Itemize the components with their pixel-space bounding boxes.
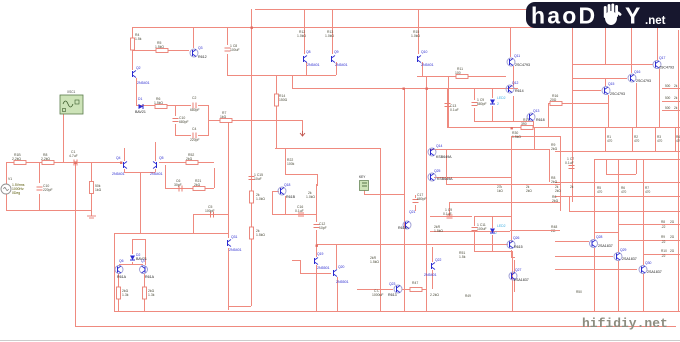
wire fb box loop — [175, 105, 209, 136]
svg-text:Q15: Q15 — [608, 82, 615, 86]
svg-text:R49: R49 — [465, 294, 471, 298]
resistor R17 — [521, 118, 533, 130]
wire Q12b column rows — [430, 150, 560, 232]
wire bottom rail y326 — [75, 326, 676, 328]
wire row y211 — [569, 196, 680, 212]
capacitor C5 fb2 — [205, 205, 215, 218]
wire output ladder stubs to y311 — [381, 148, 513, 311]
resistor R4 — [131, 33, 142, 50]
svg-text:0.1uF: 0.1uF — [295, 209, 304, 213]
svg-text:680pF: 680pF — [190, 108, 200, 112]
svg-text:1kΩ: 1kΩ — [220, 115, 227, 119]
resistor labels right margin low — [661, 220, 675, 258]
transistor Q7 mirror — [140, 259, 155, 279]
resistor R30 label — [512, 131, 521, 139]
svg-text:R614: R614 — [515, 89, 524, 93]
svg-text:2N5401: 2N5401 — [424, 273, 437, 277]
svg-text:2SA1837: 2SA1837 — [647, 270, 662, 274]
resistor R10 — [143, 287, 155, 299]
svg-text:Q10: Q10 — [421, 50, 428, 54]
wire column x132 — [133, 27, 137, 105]
svg-text:2SA1837: 2SA1837 — [622, 257, 637, 261]
svg-text:Q26: Q26 — [513, 236, 520, 240]
transistor Q2 2N5401 — [133, 66, 150, 85]
svg-text:.22: .22 — [661, 225, 666, 229]
capacitor C15 x251 — [249, 173, 264, 181]
capacitor C2 — [190, 96, 200, 112]
svg-text:220pF: 220pF — [43, 188, 53, 192]
resistor R1 — [12, 153, 26, 165]
capacitor C17 — [413, 193, 427, 203]
transistor Q14b KSB649A — [428, 169, 453, 181]
svg-text:Q12: Q12 — [512, 81, 519, 85]
transistor Q27 2SA1837 — [509, 268, 529, 282]
svg-text:C2: C2 — [192, 96, 196, 100]
resistor R14 — [275, 94, 288, 106]
wire input chain y162 — [6, 162, 121, 164]
svg-text:R612: R612 — [198, 55, 207, 59]
svg-text:100uF: 100uF — [230, 48, 240, 52]
resistor R34 label y232 — [551, 225, 557, 233]
svg-text:2kΩ: 2kΩ — [551, 180, 558, 184]
svg-text:30pF: 30pF — [174, 183, 182, 187]
wire y245 long rail — [316, 244, 508, 246]
svg-text:1.5kΩ: 1.5kΩ — [434, 229, 443, 233]
svg-text:R61A: R61A — [145, 275, 155, 279]
wire right bias row y78 — [572, 78, 627, 80]
resistor labels right margin top — [665, 84, 678, 110]
wire base rows cascade low — [555, 242, 637, 270]
transistor Q13 R618 — [527, 109, 545, 122]
resistor R51 label — [459, 251, 466, 259]
wire y233 row — [114, 233, 228, 235]
svg-text:Q21: Q21 — [409, 210, 416, 214]
svg-text:470: 470 — [597, 190, 603, 194]
wire 470 resistor column verticals upper — [606, 128, 676, 151]
wire x631 vertical — [631, 9, 633, 64]
wire x657 under-logo stub — [657, 27, 659, 60]
resistor R13 label — [325, 30, 334, 38]
svg-text:Q7: Q7 — [141, 259, 146, 263]
resistor R29 — [410, 281, 439, 297]
svg-text:1.5kΩ: 1.5kΩ — [512, 135, 521, 139]
wire x276 vertical with R14 — [276, 75, 291, 148]
wire y74 row to Q11 — [448, 76, 506, 128]
watermark hifidiy.net — [582, 316, 668, 331]
svg-text:2N5401: 2N5401 — [112, 172, 125, 176]
wire right bias row y90 — [572, 90, 601, 92]
diode D2 BAV21 mirror — [130, 253, 147, 261]
wire y306 stub — [228, 306, 251, 308]
wire bottom rail y311 — [114, 311, 680, 313]
resistor R16 — [550, 94, 562, 106]
logo haoDIY.net dark bar — [526, 2, 680, 28]
svg-text:2SC4793: 2SC4793 — [659, 66, 674, 70]
svg-text:Q9: Q9 — [334, 50, 339, 54]
hand glyph — [604, 4, 622, 26]
wire x426 long vertical — [426, 76, 428, 311]
svg-text:2kΩ: 2kΩ — [194, 183, 201, 187]
svg-text:1kΩ: 1kΩ — [95, 188, 102, 192]
resistor 470 labels upper row — [607, 135, 680, 143]
wire fb tap x165 — [165, 165, 215, 189]
svg-text:KEY: KEY — [359, 175, 366, 179]
svg-text:470: 470 — [634, 139, 640, 143]
transistor Q14a KSB649A — [428, 144, 452, 159]
wire diff pair Q4 Q5 — [124, 142, 156, 233]
svg-text:100k: 100k — [287, 162, 295, 166]
svg-text:Q16: Q16 — [634, 70, 641, 74]
resistor R9 — [117, 287, 129, 299]
svg-text:Q28: Q28 — [596, 235, 603, 239]
svg-text:V1: V1 — [8, 177, 12, 181]
transistor Q29 2SA1837 low2 — [614, 248, 637, 261]
source V1 — [1, 177, 25, 195]
svg-text:0.1uF: 0.1uF — [443, 212, 452, 216]
resistor R52 fb — [186, 153, 198, 165]
svg-text:R61B: R61B — [286, 195, 296, 199]
svg-text:2N5401: 2N5401 — [137, 81, 150, 85]
wire x572 vertical — [572, 27, 574, 202]
svg-text:Q2: Q2 — [136, 66, 141, 70]
wire rail top y9 — [255, 9, 631, 11]
svg-text:10pF: 10pF — [319, 226, 327, 230]
wire x446 x449 stubs — [447, 149, 550, 216]
transistor Q26 R615 — [507, 236, 523, 249]
resistor R28 label — [370, 256, 379, 264]
transistor Q31 x228 — [228, 235, 242, 252]
capacitor C10 — [37, 184, 53, 192]
capacitor C6 fb — [174, 179, 182, 192]
svg-text:1.5kΩ: 1.5kΩ — [370, 260, 379, 264]
arrow symbol end of y120 stub — [300, 131, 305, 136]
transistor Q3 R612 — [190, 46, 207, 59]
diode D1 BAV21 — [135, 97, 146, 114]
transistor Q15 cascade1 — [602, 82, 625, 96]
transistor Q23 R613 — [388, 282, 402, 297]
bottom border line — [0, 340, 680, 342]
svg-text:R61A: R61A — [117, 275, 127, 279]
resistor R31 label right of y149 — [551, 143, 558, 151]
wire y103 row right — [548, 103, 608, 128]
svg-text:R613: R613 — [388, 293, 397, 297]
svg-text:500: 500 — [665, 106, 671, 110]
capacitor C8 — [225, 44, 240, 52]
svg-text:2N5501: 2N5501 — [336, 280, 349, 284]
wire row y159 — [594, 159, 680, 161]
wire vas column x404 — [404, 88, 406, 311]
labels row y185 mid — [497, 185, 574, 193]
svg-text:.22: .22 — [661, 240, 666, 244]
svg-text:470: 470 — [607, 139, 613, 143]
wire scope drop x63 — [63, 114, 65, 162]
svg-text:1.5k: 1.5k — [135, 37, 142, 41]
resistor R32 label y182 — [551, 176, 558, 184]
svg-text:220pF: 220pF — [190, 138, 200, 142]
transistor Q6 mirror — [115, 259, 127, 279]
svg-text:2SA1837: 2SA1837 — [598, 244, 613, 248]
wire emitter row left pair y75 — [227, 62, 337, 76]
svg-text:LED2: LED2 — [497, 96, 506, 100]
svg-text:2k: 2k — [674, 106, 678, 110]
wire y174 stub — [285, 174, 318, 186]
svg-text:haoD: haoD — [531, 3, 597, 29]
svg-text:2N5401: 2N5401 — [229, 248, 242, 252]
capacitor C16 — [295, 205, 304, 216]
svg-text:2Ω: 2Ω — [670, 249, 675, 253]
svg-text:Q25: Q25 — [434, 169, 441, 173]
capacitor C18 label — [372, 289, 384, 297]
ground input — [87, 210, 96, 218]
svg-text:2: 2 — [495, 231, 497, 235]
wire x534 vertical — [534, 128, 536, 149]
resistor R25 x251 — [250, 227, 266, 239]
resistor R6 — [154, 97, 167, 109]
svg-text:Q6: Q6 — [119, 259, 124, 263]
wire x253 long vertical — [251, 9, 253, 306]
wire x678 vertical — [678, 30, 680, 311]
svg-text:2kΩ: 2kΩ — [186, 157, 193, 161]
LED1 — [490, 96, 506, 106]
wire Q24 column — [514, 260, 516, 292]
svg-text:1.5k: 1.5k — [459, 255, 466, 259]
svg-text:Q31: Q31 — [231, 235, 238, 239]
svg-text:2kΩ: 2kΩ — [555, 189, 561, 193]
svg-text:Q22: Q22 — [435, 258, 442, 262]
svg-text:Q23: Q23 — [389, 282, 396, 286]
svg-text:2kΩ: 2kΩ — [551, 147, 558, 151]
wire mirror base row y264 — [119, 262, 143, 265]
svg-text:Q3: Q3 — [198, 46, 203, 50]
svg-text:2.2kΩ: 2.2kΩ — [12, 157, 21, 161]
svg-text:2N5401: 2N5401 — [150, 172, 163, 176]
svg-text:0Deg: 0Deg — [12, 191, 20, 195]
svg-text:2N5401: 2N5401 — [421, 63, 434, 67]
svg-text:680pF: 680pF — [477, 102, 487, 106]
svg-text:2: 2 — [497, 102, 499, 106]
resistor R22 label — [287, 158, 295, 166]
wire x432 lower vertical — [432, 247, 434, 289]
transistor Q4 — [112, 156, 127, 176]
svg-text:4.7uF: 4.7uF — [69, 154, 78, 158]
oscilloscope XSC1 — [60, 90, 83, 114]
svg-text:Q29: Q29 — [620, 248, 627, 252]
wire mirror D2 top row — [132, 239, 146, 265]
resistor R24 x251 — [250, 191, 266, 203]
wire row y151 — [555, 151, 680, 153]
wire x316 vertical — [316, 184, 318, 245]
svg-text:2k: 2k — [674, 84, 678, 88]
svg-text:500: 500 — [665, 96, 671, 100]
svg-text:Q19: Q19 — [317, 252, 324, 256]
resistor R5 — [155, 41, 168, 53]
wire cascade collector stubs — [606, 27, 632, 86]
svg-text:Q27: Q27 — [515, 268, 522, 272]
svg-text:1000uF: 1000uF — [372, 293, 384, 297]
svg-text:C4: C4 — [192, 127, 196, 131]
wire x227 cap C8 column — [227, 27, 229, 75]
svg-text:R615: R615 — [514, 245, 523, 249]
capacitor C11 — [472, 223, 487, 231]
wire main left drop x75 — [75, 162, 77, 326]
svg-text:Q8: Q8 — [306, 50, 311, 54]
svg-text:Q4: Q4 — [116, 156, 121, 160]
svg-text:0.1uF: 0.1uF — [565, 161, 574, 165]
svg-text:470: 470 — [657, 139, 663, 143]
svg-text:Q18: Q18 — [284, 183, 291, 187]
wire right margin resistor stubs — [662, 89, 680, 111]
resistor R12 label — [297, 30, 306, 38]
svg-text:1.0kΩ: 1.0kΩ — [297, 34, 306, 38]
svg-text:2N5401: 2N5401 — [307, 63, 320, 67]
svg-text:BAV21: BAV21 — [135, 110, 146, 114]
svg-text:Y: Y — [625, 3, 640, 29]
svg-text:1kΩ: 1kΩ — [497, 189, 503, 193]
resistor R26 label x319 — [306, 191, 315, 199]
resistor R21 fb — [193, 179, 205, 191]
wire y120 row with R7 — [208, 120, 303, 131]
svg-text:1.5kΩ: 1.5kΩ — [256, 233, 265, 237]
wire row y182 — [555, 182, 680, 184]
svg-text:1.3k: 1.3k — [122, 293, 129, 297]
svg-text:Q13: Q13 — [533, 109, 540, 113]
svg-text:1.0kΩ: 1.0kΩ — [411, 34, 420, 38]
wire r612 base branch y50 — [132, 27, 194, 51]
wire rail y27 — [132, 27, 680, 29]
svg-text:680pF: 680pF — [417, 197, 427, 201]
transistor Q9 — [332, 50, 348, 67]
svg-text:10uF: 10uF — [254, 177, 262, 181]
wire Q11 top stub — [511, 27, 514, 88]
resistor R27 label — [434, 225, 443, 233]
ladder labels above y311 — [465, 290, 582, 298]
transistor Q18 — [278, 183, 296, 199]
svg-text:680pF: 680pF — [179, 120, 189, 124]
wire emitter rows cascade low — [594, 225, 680, 255]
wire right bias row y64 — [572, 64, 653, 66]
svg-text:Q20: Q20 — [338, 265, 345, 269]
svg-text:.22: .22 — [661, 254, 666, 258]
wire y88 long rail — [292, 88, 518, 90]
wire fb node row y162 — [159, 162, 214, 164]
wire Q18 base wires — [272, 191, 316, 215]
wire y136 row — [511, 136, 560, 138]
transistor Q30 2SA1837 low3 — [639, 261, 662, 274]
svg-text:1.0kΩ: 1.0kΩ — [256, 197, 265, 201]
wire x292 drop — [292, 75, 294, 88]
svg-text:Q5: Q5 — [159, 156, 164, 160]
svg-text:1.0kΩ: 1.0kΩ — [306, 195, 315, 199]
svg-text:100: 100 — [455, 71, 461, 75]
wire row y196 — [555, 196, 680, 198]
wire Q23 emitter — [511, 250, 515, 258]
resistor R3 input shunt — [90, 182, 102, 194]
wire bias network lower — [474, 216, 560, 252]
svg-text:R618: R618 — [536, 118, 545, 122]
LED2b — [490, 224, 506, 235]
capacitor C1 — [69, 150, 78, 166]
svg-text:470: 470 — [621, 190, 627, 194]
wire row y174 — [606, 159, 637, 175]
wire green box drop — [364, 190, 404, 195]
svg-text:150Ω: 150Ω — [279, 98, 288, 102]
transistor Q8 — [304, 50, 320, 67]
transistor Q19 — [315, 252, 330, 270]
svg-text:KSB649A: KSB649A — [437, 177, 453, 181]
wire stub x332 — [332, 9, 334, 54]
svg-text:2SC4793: 2SC4793 — [515, 63, 530, 67]
wire stub x304 — [304, 9, 306, 54]
capacitor C13 — [445, 104, 459, 113]
svg-text:0.1uF: 0.1uF — [450, 108, 459, 112]
svg-text:Q30: Q30 — [645, 261, 652, 265]
svg-text:2k: 2k — [674, 96, 678, 100]
resistor R7 — [220, 111, 232, 123]
svg-text:1.0kΩ: 1.0kΩ — [325, 34, 334, 38]
svg-text:D1: D1 — [138, 97, 142, 101]
wire y128 long row — [447, 127, 680, 129]
svg-text:20Ω: 20Ω — [550, 98, 557, 102]
wire x228 long vertical — [228, 121, 230, 310]
transistor Q28 2SA1837 low1 — [590, 235, 613, 248]
svg-text:1.3k: 1.3k — [148, 293, 155, 297]
transistor Q10 — [418, 50, 434, 67]
svg-text:100pF: 100pF — [205, 209, 215, 213]
wire y214 row — [193, 214, 228, 233]
wire bias network — [448, 88, 534, 128]
capacitor C3 — [173, 116, 189, 124]
capacitor C14 — [472, 98, 487, 106]
wire feedback row y105 — [136, 105, 208, 107]
svg-text:2.2kΩ: 2.2kΩ — [430, 293, 439, 297]
svg-text:XSC1: XSC1 — [67, 90, 76, 94]
resistor R33 label y202 — [552, 195, 559, 203]
wire cascade low verticals — [595, 159, 644, 311]
svg-text:1.5kΩ: 1.5kΩ — [154, 101, 163, 105]
transistor Q11 2SC4793 — [507, 54, 530, 67]
svg-text:500: 500 — [665, 84, 671, 88]
transistor Q20 — [334, 265, 349, 284]
wire stub x418 — [418, 9, 420, 54]
capacitor C4 — [190, 127, 200, 142]
svg-text:2SC4793: 2SC4793 — [636, 79, 651, 83]
wire x114 left tail vertical — [114, 233, 116, 312]
capacitor C19 — [443, 208, 453, 218]
transistor Q16 cascade2 — [628, 70, 651, 83]
svg-text:2SA1837: 2SA1837 — [514, 278, 529, 282]
transistor Q5 — [150, 156, 164, 176]
transistor Q22 — [424, 258, 442, 277]
svg-text:2N5501: 2N5501 — [317, 266, 330, 270]
svg-text:R47: R47 — [412, 281, 418, 285]
transistor Q21 R614 mid — [398, 210, 416, 230]
svg-text:R50: R50 — [576, 290, 582, 294]
svg-text:2N5401: 2N5401 — [335, 63, 348, 67]
svg-text:2kΩ: 2kΩ — [552, 199, 559, 203]
wire source loop — [6, 162, 92, 211]
wire cascade emitter drops — [609, 69, 660, 128]
svg-text:Q14: Q14 — [436, 144, 443, 148]
svg-text:1.5kΩ: 1.5kΩ — [155, 45, 164, 49]
svg-text:.net: .net — [645, 15, 666, 27]
green box K1 — [359, 175, 369, 191]
resistor R2 — [41, 153, 54, 165]
wire x511 vertical — [511, 136, 513, 242]
svg-text:2SC4793: 2SC4793 — [610, 92, 625, 96]
wire Q18 emitter drop x285 — [285, 196, 287, 214]
svg-text:Q17: Q17 — [659, 56, 666, 60]
svg-text:R8: R8 — [661, 220, 665, 224]
